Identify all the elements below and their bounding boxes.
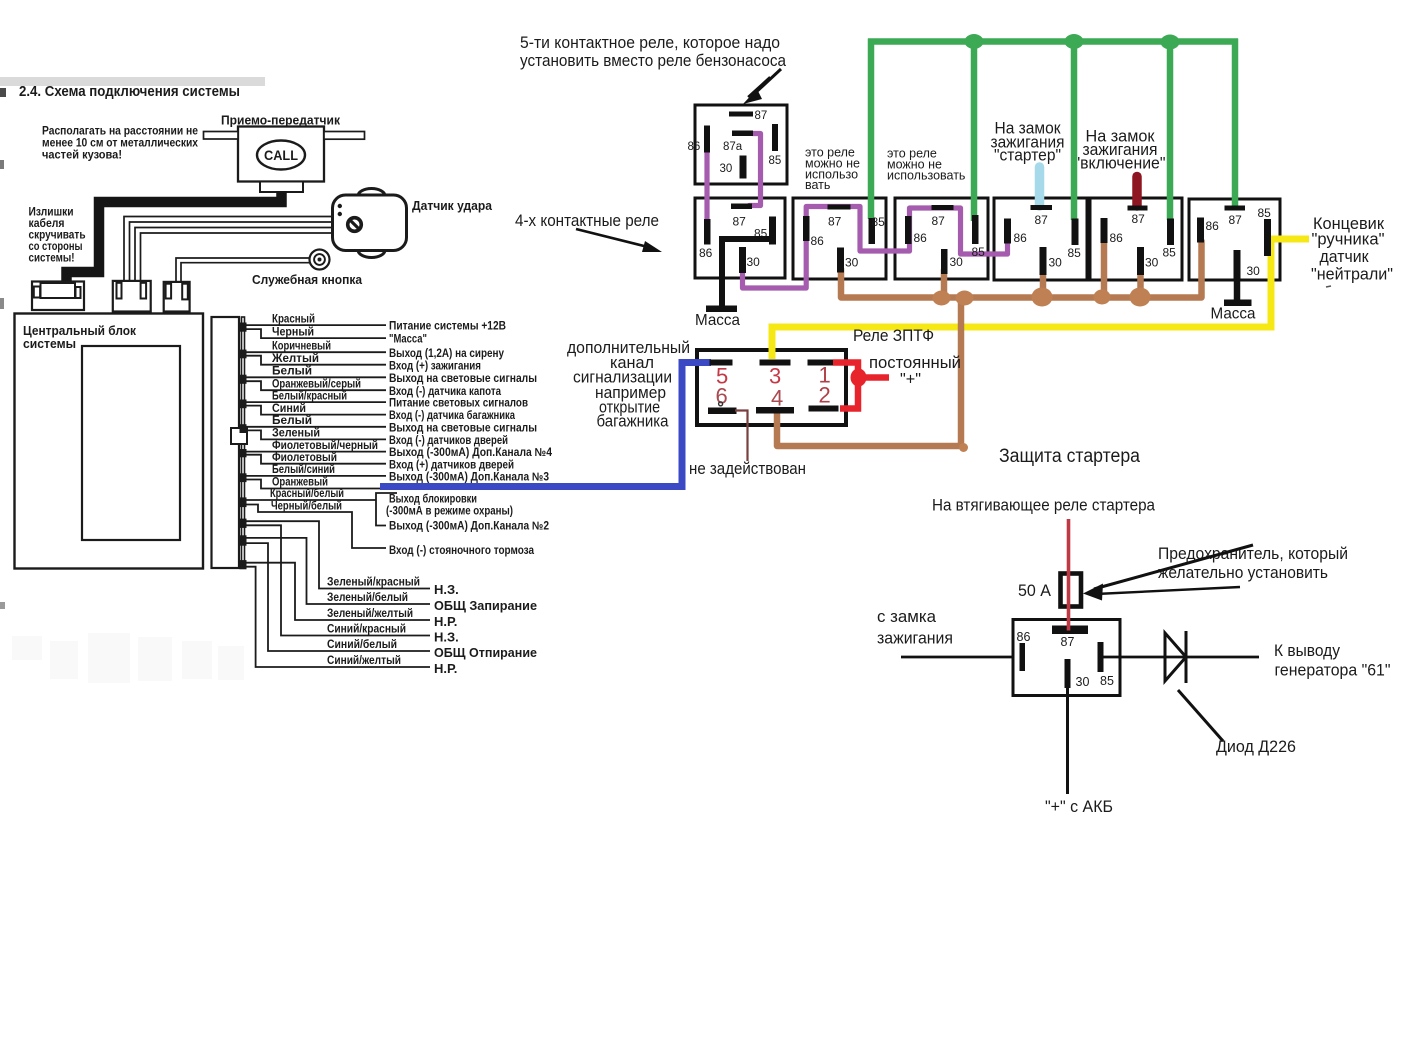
svg-text:50 А: 50 А — [1018, 581, 1052, 600]
svg-text:30: 30 — [747, 255, 761, 269]
svg-text:Выход блокировки: Выход блокировки — [389, 494, 477, 506]
svg-text:Черный: Черный — [272, 324, 314, 338]
svg-text:(-300мА в режиме охраны): (-300мА в режиме охраны) — [386, 506, 513, 518]
svg-text:Датчик удара: Датчик удара — [412, 198, 493, 213]
svg-text:86: 86 — [1206, 219, 1220, 233]
svg-text:"нейтрали": "нейтрали" — [1311, 265, 1393, 284]
svg-text:4: 4 — [771, 386, 783, 411]
svg-text:Н.Р.: Н.Р. — [434, 614, 457, 629]
svg-text:Зеленый/желтый: Зеленый/желтый — [327, 606, 413, 620]
svg-text:Черный/белый: Черный/белый — [271, 499, 342, 513]
green drop to relay3 pin85 — [971, 42, 978, 222]
diode D226 — [1185, 631, 1188, 683]
fog relay pin 2 bar — [809, 406, 839, 412]
arrow to 4-pin relay — [576, 229, 652, 248]
svg-text:Масса: Масса — [1211, 306, 1256, 323]
svg-text:не задействован: не задействован — [689, 459, 806, 478]
svg-text:86: 86 — [699, 246, 713, 260]
fog relay pin 1 bar — [808, 360, 838, 366]
ignition-on stub wire (dark red) — [1132, 177, 1142, 207]
small key square on strip — [231, 428, 247, 444]
svg-text:Вход (-) датчика багажника: Вход (-) датчика багажника — [389, 410, 515, 422]
connector block 2 — [113, 281, 151, 312]
svg-text:2.4. Схема подключения системы: 2.4. Схема подключения системы — [19, 84, 240, 100]
svg-text:скручивать: скручивать — [29, 230, 86, 242]
svg-text:4-х контактные реле: 4-х контактные реле — [515, 211, 659, 230]
wire Оранжевый/серый (row 5) — [244, 381, 386, 390]
svg-text:87: 87 — [1132, 212, 1146, 226]
svg-text:"+": "+" — [900, 370, 921, 389]
green drop to relay6 pin87 — [1232, 39, 1239, 208]
svg-text:87: 87 — [1035, 213, 1049, 227]
svg-text:"+" с АКБ: "+" с АКБ — [1045, 797, 1113, 816]
svg-text:Реле ЗПТФ: Реле ЗПТФ — [853, 326, 934, 345]
svg-text:Диод Д226: Диод Д226 — [1216, 737, 1296, 756]
central unit inner board — [82, 346, 180, 540]
svg-text:"ручника": "ручника" — [1312, 230, 1385, 249]
svg-text:Вход (-) стояночного тормоза: Вход (-) стояночного тормоза — [389, 545, 535, 557]
wire Фиолетовый (row 11) — [244, 455, 386, 464]
svg-text:На втягивающее реле стартера: На втягивающее реле стартера — [932, 496, 1155, 515]
fog lamp relay (Реле ЗПТФ) box — [697, 350, 846, 425]
svg-text:датчик: датчик — [1320, 247, 1370, 266]
relay K5 pins — [1128, 206, 1148, 211]
brown bus under relays — [841, 241, 1202, 298]
svg-text:Выход (-300мА) Доп.Канала №2: Выход (-300мА) Доп.Канала №2 — [389, 521, 549, 533]
relay K2 box — [793, 198, 886, 279]
svg-text:85: 85 — [1100, 674, 1114, 688]
connector block 1 — [32, 282, 84, 311]
harness connector strip — [212, 317, 240, 568]
svg-text:Вход (-) датчика капота: Вход (-) датчика капота — [389, 386, 502, 398]
svg-text:Вход (+) зажигания: Вход (+) зажигания — [389, 360, 481, 372]
red wire to starter solenoid — [1067, 519, 1071, 631]
shock sensor (Датчик удара) body — [358, 189, 385, 196]
svg-text:Н.З.: Н.З. — [434, 630, 459, 645]
brown junction dots — [933, 291, 951, 306]
svg-text:частей кузова!: частей кузова! — [42, 150, 122, 162]
unused pin6 pointer — [735, 411, 748, 462]
svg-text:Питание системы +12В: Питание системы +12В — [389, 321, 506, 333]
svg-text:"Масса": "Масса" — [389, 334, 427, 346]
green drop to relay2 pin85 — [868, 39, 875, 220]
svg-text:87: 87 — [1061, 635, 1075, 649]
svg-text:Синий/белый: Синий/белый — [327, 637, 397, 651]
svg-text:86: 86 — [914, 231, 928, 245]
brown drop relay5 86 — [1101, 240, 1108, 298]
svg-text:установить вместо реле бензона: установить вместо реле бензонасоса — [520, 52, 787, 70]
svg-text:Располагать на расстоянии не: Располагать на расстоянии не — [42, 126, 198, 138]
green drop to relay5 pin85 — [1167, 42, 1174, 221]
fog relay pin 6 bar — [708, 408, 737, 415]
svg-text:30: 30 — [1049, 256, 1063, 270]
svg-text:Масса: Масса — [695, 312, 740, 329]
svg-text:2: 2 — [819, 383, 831, 408]
wire Фиолетовый/черный (row 10) — [244, 451, 386, 453]
relay K6 box — [1189, 199, 1280, 280]
pointer to diode label — [1178, 690, 1223, 741]
svg-text:Вход (-) датчиков дверей: Вход (-) датчиков дверей — [389, 435, 508, 447]
wire Зеленый/красный — [244, 521, 430, 588]
wire Синий/желтый — [244, 567, 430, 667]
wire Синий (row 7) — [244, 406, 386, 415]
svg-text:вать: вать — [805, 178, 830, 192]
wire Зеленый (row 9) — [244, 430, 386, 439]
svg-text:5-ти контактное реле, которое: 5-ти контактное реле, которое надо — [520, 34, 780, 52]
fog relay pin 4 bar — [756, 407, 794, 414]
relay K2 pins — [828, 205, 851, 210]
wire Зеленый/желтый — [244, 563, 430, 620]
svg-text:использовать: использовать — [887, 169, 965, 183]
svg-text:85: 85 — [872, 215, 886, 229]
relay K3 pins — [932, 205, 954, 210]
wire Черный (row 1) — [244, 329, 386, 338]
green drop to relay4 pin85 — [1071, 42, 1078, 221]
green +12 bus — [868, 38, 1238, 45]
svg-text:Служебная кнопка: Служебная кнопка — [252, 272, 363, 287]
wire Красный/белый (row 14) — [244, 499, 376, 501]
connector block 3 — [164, 282, 190, 312]
brown drop relay3 30 — [941, 270, 948, 298]
svg-text:85: 85 — [1258, 206, 1272, 220]
svg-text:85: 85 — [972, 245, 986, 259]
svg-text:Н.З.: Н.З. — [434, 582, 459, 597]
svg-text:30: 30 — [1145, 256, 1159, 270]
purple chain relay1 30 - relay2 - relay3 - relay4 86 — [743, 207, 1008, 289]
svg-text:Красный: Красный — [272, 311, 315, 325]
wire Желтый (row 3) — [244, 356, 386, 365]
svg-text:ОБЩ Отпирание: ОБЩ Отпирание — [434, 645, 537, 660]
wire to battery plus — [1066, 688, 1069, 794]
thick black cable from transceiver to connector — [67, 191, 282, 286]
svg-text:генератора "61": генератора "61" — [1275, 661, 1391, 680]
scan artifact: grey bar top left — [0, 77, 265, 86]
svg-text:ОБЩ Запирание: ОБЩ Запирание — [434, 598, 537, 613]
relay K3 box — [895, 198, 988, 279]
svg-text:Синий/красный: Синий/красный — [327, 621, 406, 635]
relay K4 box — [994, 198, 1087, 280]
svg-text:87а: 87а — [723, 141, 743, 153]
svg-text:Излишки: Излишки — [29, 207, 74, 219]
fog relay pin 3 bar — [760, 360, 791, 366]
red jumper pin1-pin2 with constant plus — [833, 363, 858, 409]
svg-text:"включение": "включение" — [1075, 154, 1166, 173]
svg-text:87: 87 — [828, 215, 842, 229]
svg-text:30: 30 — [720, 163, 733, 175]
svg-text:со стороны: со стороны — [29, 241, 83, 253]
brown drop relay5 30 — [1137, 271, 1144, 298]
wire pair to service button — [176, 258, 310, 283]
ground symbol right — [1224, 300, 1252, 307]
svg-text:85: 85 — [1068, 246, 1082, 260]
svg-text:Н.Р.: Н.Р. — [434, 661, 457, 676]
svg-text:30: 30 — [845, 256, 859, 270]
svg-text:Приемо-передатчик: Приемо-передатчик — [221, 113, 340, 128]
relay K6 pins — [1225, 206, 1246, 211]
relay1 ground wire — [722, 239, 771, 306]
ground symbol left — [706, 306, 737, 313]
brown riser to fog relay pin4 — [777, 298, 961, 447]
blue wire channel3 to fog relay pin5 — [380, 363, 711, 487]
relay K1 pins — [731, 204, 752, 210]
svg-text:Предохранитель, который: Предохранитель, который — [1158, 544, 1348, 563]
svg-text:87: 87 — [1229, 213, 1243, 227]
svg-text:Выход (-300мА) Доп.Канала №4: Выход (-300мА) Доп.Канала №4 — [389, 447, 553, 459]
relay6 ground wire — [1234, 279, 1241, 300]
central unit box — [15, 314, 204, 569]
green junction dots — [965, 34, 984, 49]
svg-text:Защита стартера: Защита стартера — [999, 446, 1140, 467]
wire Черный/белый (row 15) — [244, 505, 386, 549]
svg-text:86: 86 — [1017, 630, 1031, 644]
svg-text:Синий/желтый: Синий/желтый — [327, 653, 401, 667]
scan smudges — [12, 636, 42, 660]
fog relay pin 5 bar — [710, 360, 733, 366]
svg-text:Белый: Белый — [272, 364, 312, 378]
purple jumper 87a to relay1 87 — [749, 134, 761, 206]
wire Белый (row 4) — [244, 376, 386, 378]
thin cable wires to shock sensor — [124, 217, 332, 283]
svg-text:86: 86 — [811, 234, 825, 248]
purple jumper 5pin 86 to relay1 86 — [704, 150, 709, 221]
svg-text:85: 85 — [1163, 246, 1177, 260]
relay K0 pins — [729, 112, 753, 117]
svg-text:Выход на световые сигналы: Выход на световые сигналы — [389, 373, 537, 385]
scan artifact dash — [1326, 286, 1331, 287]
wire Синий/красный — [244, 525, 430, 635]
starter stub wire (light blue) — [1035, 167, 1045, 206]
svg-text:87: 87 — [733, 215, 747, 229]
svg-text:30: 30 — [1247, 264, 1261, 278]
svg-text:кабеля: кабеля — [29, 218, 65, 230]
svg-text:87: 87 — [932, 214, 946, 228]
svg-text:30: 30 — [950, 255, 964, 269]
svg-text:86: 86 — [688, 141, 701, 153]
svg-text:85: 85 — [769, 155, 782, 167]
brown drop relay4 30 — [1040, 271, 1047, 298]
wire to generator via diode — [1104, 656, 1260, 659]
left antenna stub — [204, 132, 239, 140]
yellow wire handbrake/neutral to fog relay pin3 — [1265, 236, 1310, 243]
svg-text:Выход на световые сигналы: Выход на световые сигналы — [389, 422, 537, 434]
svg-text:Зеленый/белый: Зеленый/белый — [327, 590, 408, 604]
wire Белый/синий (row 12) — [244, 475, 386, 477]
branch to blocking output and channel 2 — [376, 493, 397, 500]
service button (Служебная кнопка) — [310, 250, 330, 270]
svg-text:зажигания: зажигания — [877, 629, 953, 648]
svg-text:желательно установить: желательно установить — [1158, 563, 1328, 582]
wire Синий/белый — [244, 543, 430, 651]
svg-text:86: 86 — [1110, 231, 1124, 245]
right antenna stub — [324, 132, 365, 140]
svg-text:менее 10 см от металлических: менее 10 см от металлических — [42, 138, 199, 150]
relay K1 box — [695, 198, 785, 278]
relay K0 (5-pin) box — [695, 105, 787, 184]
arrow to 5-pin relay — [752, 69, 781, 96]
svg-text:с замка: с замка — [877, 607, 937, 626]
transceiver box U-CALL — [238, 127, 324, 182]
wire Оранжевый (row 13) — [244, 480, 380, 489]
svg-text:К выводу: К выводу — [1274, 641, 1340, 660]
svg-text:30: 30 — [1076, 675, 1090, 689]
arrow to fuse — [1094, 545, 1253, 589]
wire Зеленый/белый — [244, 538, 430, 604]
relay K4 pins — [1031, 205, 1053, 210]
wire Красный (row 0) — [244, 324, 386, 326]
wire from ignition lock — [901, 656, 1013, 659]
wire Белый (row 8) — [244, 426, 386, 428]
svg-text:86: 86 — [1014, 231, 1028, 245]
wire Коричневый (row 2) — [244, 351, 386, 353]
svg-text:багажника: багажника — [597, 412, 669, 431]
svg-text:Зеленый/красный: Зеленый/красный — [327, 574, 420, 588]
svg-text:CALL: CALL — [264, 148, 298, 163]
svg-text:"стартер": "стартер" — [994, 146, 1061, 165]
svg-text:системы!: системы! — [29, 253, 75, 265]
relay K5 box — [1090, 198, 1182, 280]
svg-text:Вход (+) датчиков дверей: Вход (+) датчиков дверей — [389, 459, 514, 471]
fuse 50A — [1061, 574, 1082, 607]
svg-text:системы: системы — [23, 336, 76, 351]
svg-text:87: 87 — [755, 110, 768, 122]
svg-text:Питание световых сигналов: Питание световых сигналов — [389, 398, 528, 410]
starter protection relay box — [1013, 620, 1120, 696]
svg-text:Выход (1,2А) на сирену: Выход (1,2А) на сирену — [389, 348, 505, 360]
wire Белый/красный (row 6) — [244, 401, 386, 403]
svg-text:Выход (-300мА) Доп.Канала №3: Выход (-300мА) Доп.Канала №3 — [389, 472, 549, 484]
